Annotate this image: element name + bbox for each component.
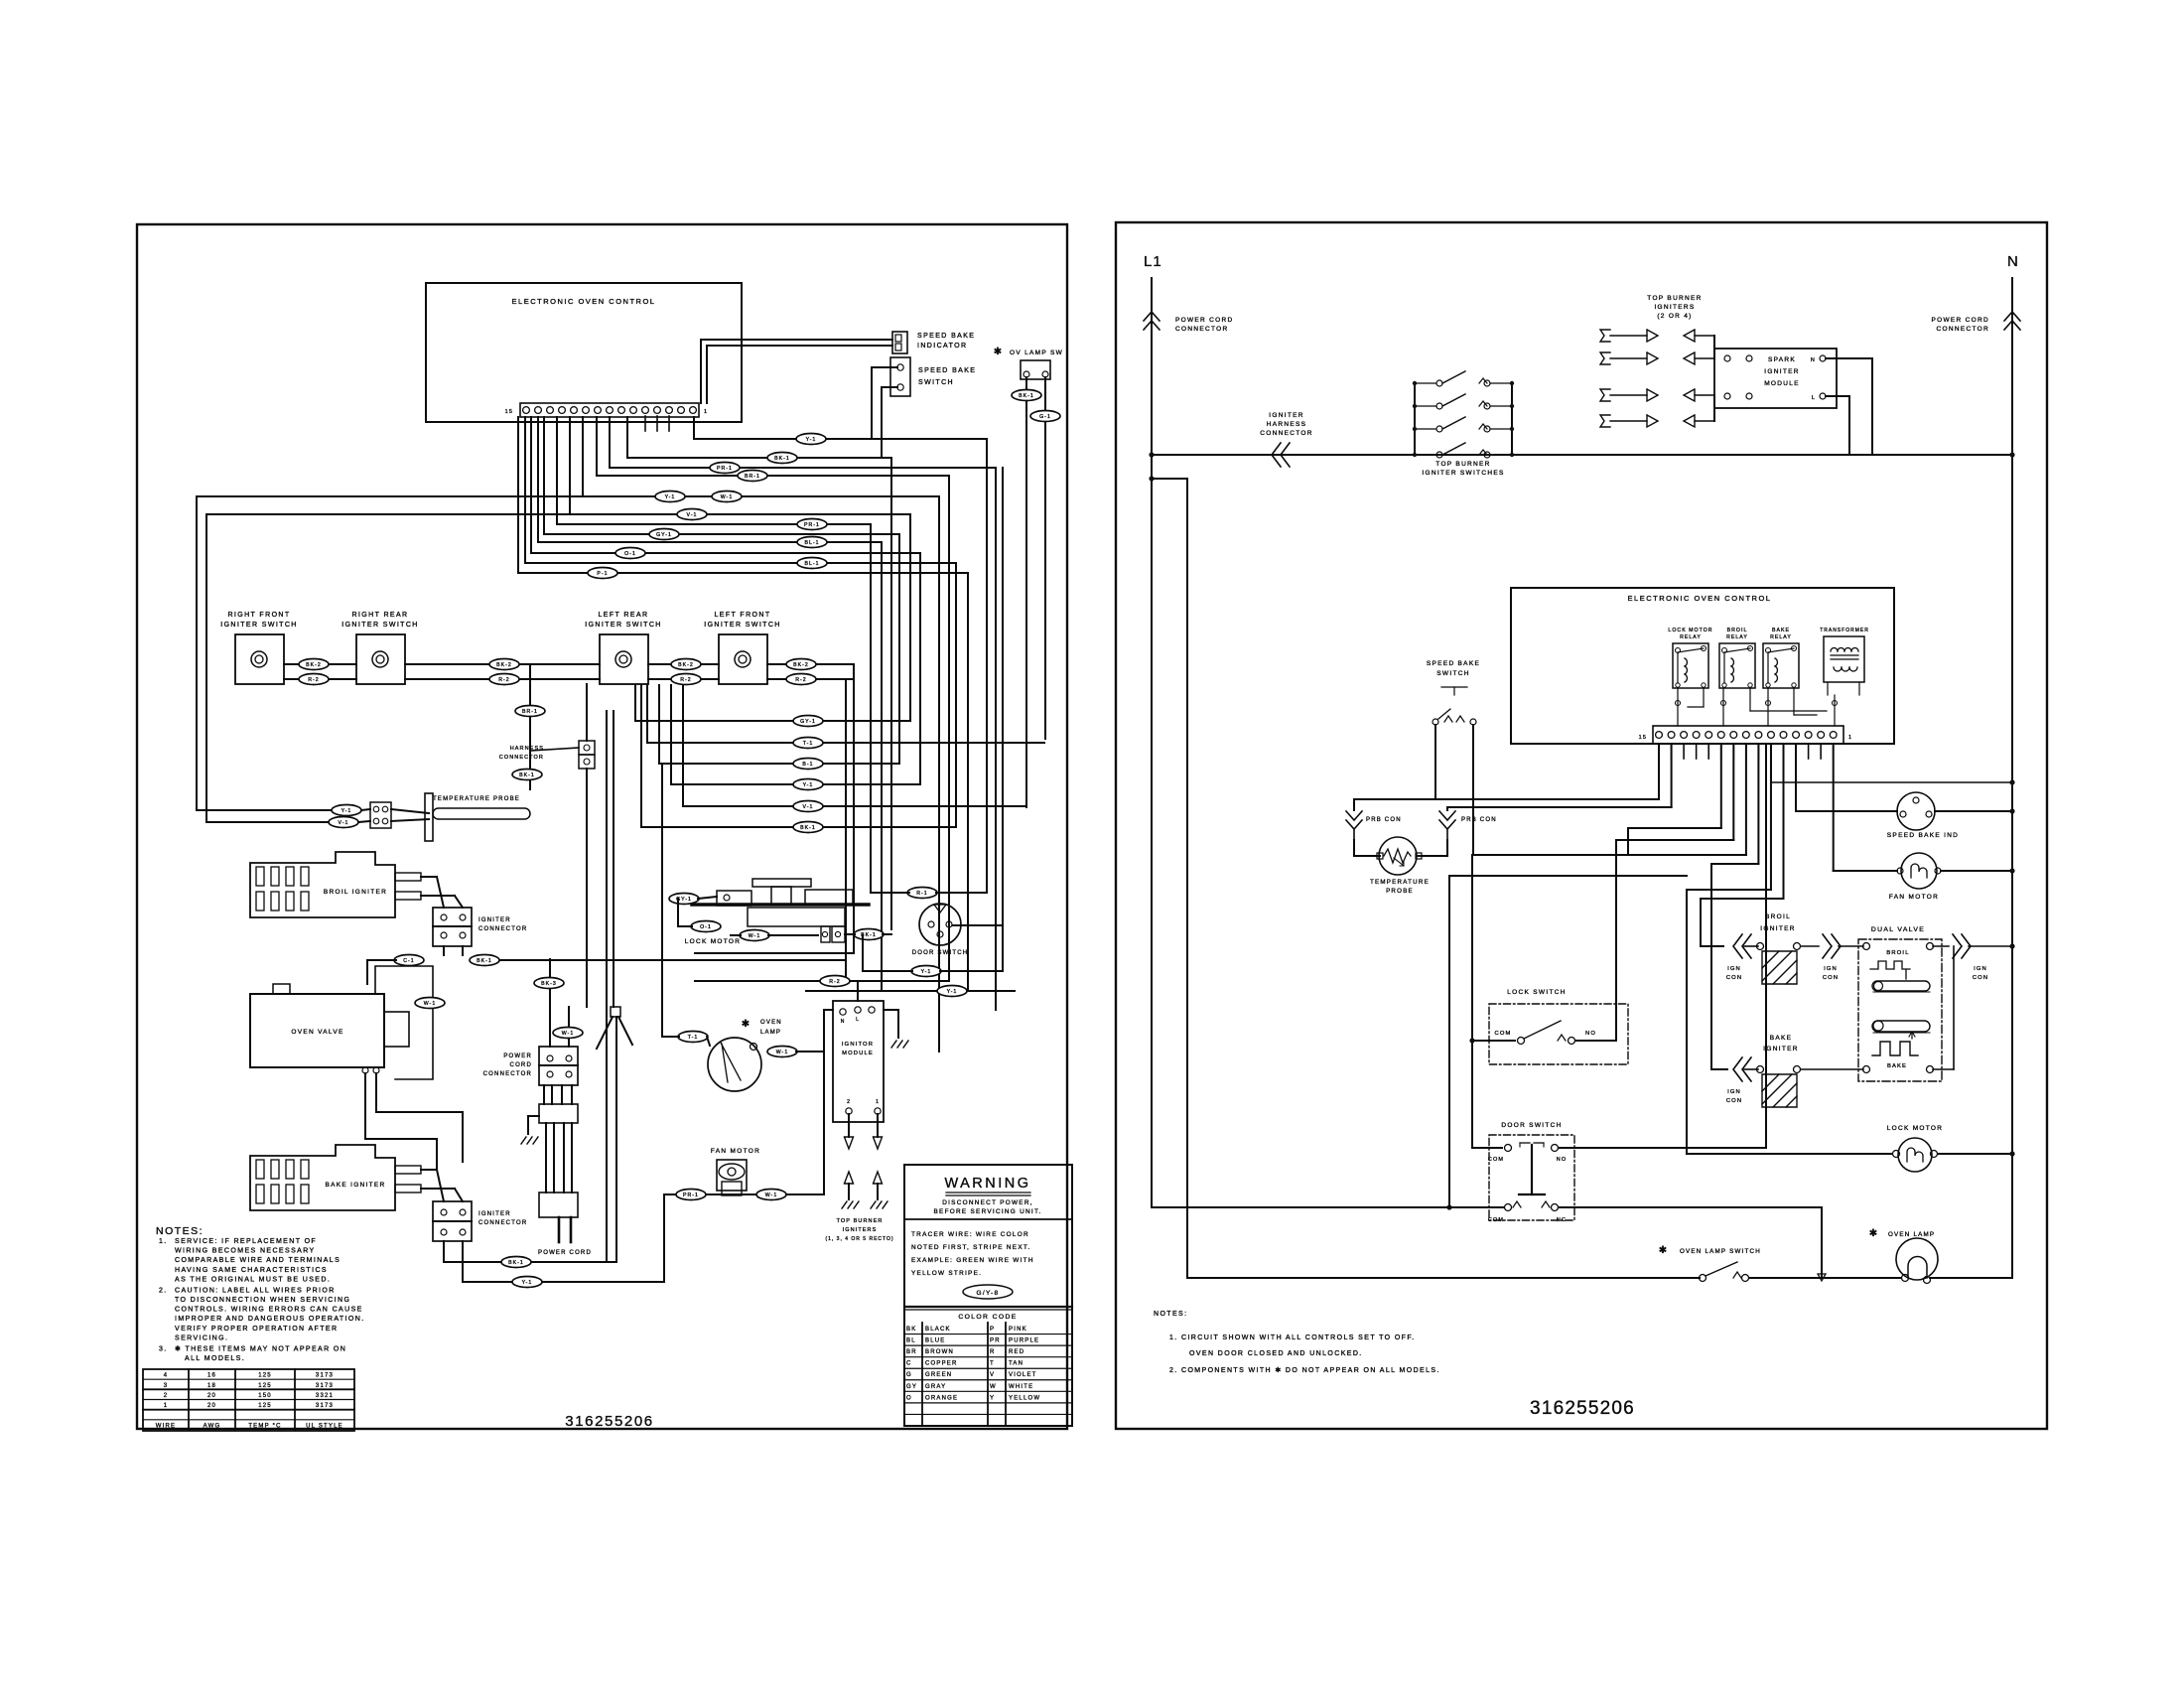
- svg-text:POWER CORD: POWER CORD: [1932, 317, 1990, 324]
- svg-text:3173: 3173: [316, 1383, 334, 1389]
- svg-text:Y-1: Y-1: [522, 1280, 533, 1286]
- svg-text:BL: BL: [906, 1338, 916, 1344]
- svg-text:CAUTION: LABEL ALL WIRES PRI: CAUTION: LABEL ALL WIRES PRIOR: [175, 1287, 336, 1294]
- svg-text:NOTES:: NOTES:: [1154, 1311, 1187, 1318]
- svg-text:GREEN: GREEN: [925, 1372, 952, 1378]
- svg-text:UL STYLE: UL STYLE: [306, 1423, 343, 1429]
- svg-text:CON: CON: [1726, 975, 1742, 981]
- svg-text:R-2: R-2: [308, 677, 319, 683]
- svg-text:BK-2: BK-2: [496, 662, 512, 668]
- svg-text:W-1: W-1: [721, 494, 734, 500]
- svg-text:RELAY: RELAY: [1726, 634, 1748, 640]
- svg-text:GY-1: GY-1: [800, 719, 816, 725]
- svg-text:OVEN: OVEN: [760, 1020, 782, 1026]
- svg-text:W-1: W-1: [776, 1050, 789, 1055]
- svg-text:T-1: T-1: [688, 1035, 699, 1041]
- svg-text:GY-1: GY-1: [656, 532, 672, 538]
- svg-text:OVEN VALVE: OVEN VALVE: [291, 1029, 343, 1036]
- svg-text:SPEED BAKE: SPEED BAKE: [918, 367, 976, 374]
- svg-text:BK-1: BK-1: [774, 456, 790, 462]
- svg-text:IGNITER: IGNITER: [478, 1211, 511, 1217]
- svg-text:CONTROLS. WIRING ERRORS CAN: CONTROLS. WIRING ERRORS CAN CAUSE: [175, 1307, 363, 1314]
- svg-text:BROIL: BROIL: [1765, 913, 1791, 920]
- svg-text:IGNITER: IGNITER: [478, 917, 511, 923]
- svg-text:C-1: C-1: [403, 958, 414, 964]
- svg-text:ALL MODELS.: ALL MODELS.: [185, 1355, 245, 1362]
- svg-text:SWITCH: SWITCH: [918, 379, 954, 386]
- svg-text:DOOR SWITCH: DOOR SWITCH: [912, 950, 969, 956]
- svg-text:V-1: V-1: [803, 804, 814, 810]
- svg-text:GY: GY: [906, 1384, 917, 1390]
- svg-text:OVEN LAMP: OVEN LAMP: [1888, 1231, 1935, 1238]
- svg-text:B-1: B-1: [802, 762, 813, 768]
- svg-text:TO DISCONNECTION WHEN SERVICIN: TO DISCONNECTION WHEN SERVICING: [175, 1297, 350, 1304]
- svg-text:BK-2: BK-2: [793, 662, 809, 668]
- svg-text:SWITCH: SWITCH: [1436, 670, 1469, 677]
- svg-text:IGNITER SWITCHES: IGNITER SWITCHES: [1422, 470, 1504, 477]
- svg-text:COM: COM: [1488, 1217, 1504, 1223]
- svg-text:CON: CON: [1726, 1098, 1742, 1104]
- svg-text:BK: BK: [906, 1327, 916, 1333]
- svg-text:125: 125: [258, 1383, 272, 1389]
- svg-text:DISCONNECT POWER,: DISCONNECT POWER,: [942, 1199, 1033, 1206]
- svg-text:CONNECTOR: CONNECTOR: [478, 926, 527, 932]
- svg-text:N: N: [1811, 357, 1816, 363]
- svg-text:W-1: W-1: [765, 1193, 778, 1198]
- svg-text:NO: NO: [1557, 1157, 1567, 1163]
- svg-text:Y-1: Y-1: [806, 437, 817, 443]
- svg-text:LOCK MOTOR: LOCK MOTOR: [1887, 1125, 1944, 1132]
- svg-text:COM: COM: [1488, 1157, 1504, 1163]
- svg-text:BROIL: BROIL: [1727, 628, 1748, 633]
- svg-text:✱: ✱: [1869, 1228, 1879, 1239]
- svg-text:Y-1: Y-1: [665, 494, 676, 500]
- svg-text:1: 1: [876, 1099, 880, 1105]
- svg-text:V-1: V-1: [687, 512, 698, 518]
- svg-text:✱: ✱: [1659, 1245, 1669, 1256]
- svg-text:TOP BURNER: TOP BURNER: [837, 1218, 884, 1224]
- svg-text:RIGHT FRONT: RIGHT FRONT: [227, 612, 290, 619]
- svg-text:BR-1: BR-1: [745, 474, 760, 480]
- svg-text:BK-1: BK-1: [477, 958, 492, 964]
- svg-text:BL-1: BL-1: [804, 540, 819, 546]
- svg-text:G/Y-8: G/Y-8: [977, 1290, 1000, 1297]
- svg-text:COLOR CODE: COLOR CODE: [958, 1314, 1017, 1321]
- svg-text:OVEN LAMP SWITCH: OVEN LAMP SWITCH: [1680, 1248, 1761, 1255]
- svg-text:G: G: [906, 1372, 912, 1378]
- svg-text:C: C: [906, 1361, 912, 1367]
- svg-text:316255206: 316255206: [565, 1413, 653, 1430]
- svg-text:Y: Y: [990, 1395, 995, 1401]
- svg-text:RELAY: RELAY: [1680, 634, 1702, 640]
- svg-text:3173: 3173: [316, 1403, 334, 1409]
- svg-text:IGNITER SWITCH: IGNITER SWITCH: [341, 622, 419, 629]
- svg-text:BAKE: BAKE: [1887, 1063, 1907, 1069]
- svg-text:YELLOW STRIPE.: YELLOW STRIPE.: [911, 1270, 982, 1277]
- svg-text:IGNITER: IGNITER: [1269, 412, 1303, 419]
- svg-text:COM: COM: [1494, 1031, 1511, 1037]
- svg-text:T-1: T-1: [803, 741, 814, 747]
- svg-text:PURPLE: PURPLE: [1009, 1338, 1039, 1344]
- svg-text:TEMP °C: TEMP °C: [248, 1423, 281, 1429]
- svg-text:IMPROPER AND DANGEROUS OPERATI: IMPROPER AND DANGEROUS OPERATION.: [175, 1316, 365, 1323]
- svg-text:✱ THESE ITEMS MAY NOT APPEAR O: ✱ THESE ITEMS MAY NOT APPEAR ON: [175, 1344, 346, 1352]
- svg-text:R-2: R-2: [795, 677, 806, 683]
- svg-text:SPEED BAKE: SPEED BAKE: [1427, 660, 1480, 667]
- svg-text:CONNECTOR: CONNECTOR: [1937, 326, 1989, 333]
- svg-text:BROWN: BROWN: [925, 1349, 954, 1355]
- svg-text:O-1: O-1: [624, 551, 636, 557]
- svg-text:MODULE: MODULE: [842, 1051, 874, 1056]
- svg-text:Y-1: Y-1: [921, 969, 932, 975]
- svg-text:18: 18: [207, 1383, 216, 1389]
- svg-text:GRAY: GRAY: [925, 1384, 946, 1390]
- svg-text:1.: 1.: [159, 1238, 168, 1245]
- svg-text:POWER CORD: POWER CORD: [538, 1250, 592, 1256]
- svg-text:WHITE: WHITE: [1009, 1384, 1033, 1390]
- svg-text:(2 OR 4): (2 OR 4): [1657, 313, 1692, 320]
- svg-text:BL-1: BL-1: [804, 561, 819, 567]
- svg-text:2: 2: [164, 1393, 169, 1399]
- svg-text:BEFORE SERVICING UNIT.: BEFORE SERVICING UNIT.: [933, 1208, 1041, 1215]
- svg-text:SERVICING.: SERVICING.: [175, 1334, 228, 1341]
- svg-text:3.: 3.: [159, 1345, 168, 1352]
- svg-text:4: 4: [164, 1373, 169, 1379]
- svg-text:IGNITER: IGNITER: [1760, 925, 1795, 932]
- svg-text:20: 20: [207, 1393, 216, 1399]
- svg-text:PR: PR: [990, 1338, 1001, 1344]
- svg-text:POWER: POWER: [503, 1053, 532, 1059]
- svg-text:IGN: IGN: [1824, 966, 1838, 972]
- svg-text:HAVING SAME CHARACTERISTICS: HAVING SAME CHARACTERISTICS: [175, 1267, 328, 1274]
- svg-text:O-1: O-1: [700, 924, 712, 930]
- svg-text:FAN MOTOR: FAN MOTOR: [1889, 894, 1939, 901]
- svg-text:BLACK: BLACK: [925, 1327, 951, 1333]
- svg-text:15: 15: [505, 409, 513, 415]
- svg-text:BR: BR: [906, 1349, 917, 1355]
- svg-text:CON: CON: [1823, 975, 1839, 981]
- svg-text:W-1: W-1: [749, 933, 761, 939]
- svg-text:COMPARABLE WIRE AND TERMINALS: COMPARABLE WIRE AND TERMINALS: [175, 1257, 341, 1264]
- svg-text:V: V: [990, 1372, 995, 1378]
- svg-text:R: R: [990, 1349, 996, 1355]
- svg-text:R-1: R-1: [916, 891, 927, 897]
- svg-text:3321: 3321: [316, 1393, 334, 1399]
- svg-text:L: L: [1812, 395, 1816, 401]
- svg-text:COPPER: COPPER: [925, 1361, 958, 1367]
- svg-text:INDICATOR: INDICATOR: [917, 343, 967, 350]
- svg-text:OV LAMP SW: OV LAMP SW: [1010, 350, 1063, 356]
- svg-text:WARNING: WARNING: [944, 1176, 1030, 1192]
- svg-text:DOOR SWITCH: DOOR SWITCH: [1501, 1122, 1562, 1129]
- svg-text:P-1: P-1: [597, 571, 608, 577]
- svg-text:BK-1: BK-1: [508, 1260, 524, 1266]
- svg-text:CONNECTOR: CONNECTOR: [1175, 326, 1228, 333]
- svg-text:N: N: [2007, 253, 2018, 270]
- svg-text:IGNITER SWITCH: IGNITER SWITCH: [220, 622, 298, 629]
- svg-text:VIOLET: VIOLET: [1009, 1372, 1037, 1378]
- svg-text:R-2: R-2: [829, 979, 840, 985]
- svg-text:W: W: [990, 1384, 997, 1390]
- svg-text:✱: ✱: [742, 1019, 751, 1030]
- svg-text:BROIL: BROIL: [1886, 950, 1909, 956]
- svg-text:ELECTRONIC OVEN CONTROL: ELECTRONIC OVEN CONTROL: [512, 297, 656, 306]
- svg-text:IGNITERS: IGNITERS: [1654, 304, 1695, 311]
- svg-text:CONNECTOR: CONNECTOR: [499, 755, 544, 761]
- svg-text:AS THE ORIGINAL MUST BE USED.: AS THE ORIGINAL MUST BE USED.: [175, 1276, 331, 1283]
- svg-text:15: 15: [1639, 735, 1647, 741]
- svg-text:R-2: R-2: [498, 677, 509, 683]
- svg-text:PRB CON: PRB CON: [1461, 817, 1497, 823]
- svg-text:(1, 3, 4 OR 5 RECTO): (1, 3, 4 OR 5 RECTO): [825, 1236, 893, 1242]
- svg-text:RELAY: RELAY: [1770, 634, 1792, 640]
- svg-text:G-1: G-1: [1039, 414, 1051, 420]
- svg-text:BK-3: BK-3: [541, 981, 557, 987]
- svg-text:TOP BURNER: TOP BURNER: [1647, 295, 1702, 302]
- svg-text:ELECTRONIC OVEN CONTROL: ELECTRONIC OVEN CONTROL: [1628, 594, 1772, 603]
- svg-text:3: 3: [164, 1383, 169, 1389]
- svg-text:2: 2: [847, 1099, 851, 1105]
- svg-text:N: N: [841, 1019, 846, 1025]
- svg-text:PROBE: PROBE: [1386, 888, 1414, 895]
- svg-text:125: 125: [258, 1403, 272, 1409]
- svg-text:3173: 3173: [316, 1373, 334, 1379]
- svg-text:TEMPERATURE: TEMPERATURE: [1370, 879, 1430, 886]
- svg-text:RIGHT REAR: RIGHT REAR: [351, 612, 408, 619]
- svg-text:BAKE IGNITER: BAKE IGNITER: [325, 1182, 385, 1189]
- svg-text:O: O: [906, 1395, 912, 1401]
- svg-text:BR-1: BR-1: [522, 709, 538, 715]
- svg-text:IGN: IGN: [1727, 1089, 1741, 1095]
- svg-text:YELLOW: YELLOW: [1009, 1395, 1040, 1401]
- svg-text:LOCK MOTOR: LOCK MOTOR: [685, 938, 742, 945]
- svg-text:TRANSFORMER: TRANSFORMER: [1820, 628, 1869, 633]
- svg-text:NO: NO: [1585, 1031, 1596, 1037]
- svg-text:DUAL VALVE: DUAL VALVE: [1871, 926, 1925, 933]
- svg-text:HARNESS: HARNESS: [1267, 421, 1307, 428]
- svg-text:IGNITER SWITCH: IGNITER SWITCH: [704, 622, 781, 629]
- svg-text:PRB CON: PRB CON: [1366, 817, 1402, 823]
- svg-text:LOCK SWITCH: LOCK SWITCH: [1507, 989, 1566, 996]
- svg-text:IGNITOR: IGNITOR: [842, 1042, 874, 1048]
- svg-text:Y-1: Y-1: [803, 782, 814, 788]
- svg-text:R-2: R-2: [680, 677, 691, 683]
- svg-text:V-1: V-1: [339, 820, 349, 826]
- svg-text:316255206: 316255206: [1530, 1398, 1635, 1419]
- svg-text:2. COMPONENTS WITH ✱ DO NOT: 2. COMPONENTS WITH ✱ DO NOT APPEAR ON AL…: [1169, 1366, 1440, 1374]
- svg-text:BK-2: BK-2: [306, 662, 322, 668]
- svg-text:CON: CON: [1973, 975, 1988, 981]
- svg-text:PR-1: PR-1: [804, 522, 820, 528]
- svg-text:VERIFY PROPER OPERATION AFTER: VERIFY PROPER OPERATION AFTER: [175, 1326, 338, 1333]
- svg-text:LEFT REAR: LEFT REAR: [599, 612, 649, 619]
- svg-text:NOTES:: NOTES:: [156, 1225, 204, 1237]
- svg-text:AWG: AWG: [204, 1423, 221, 1429]
- svg-text:16: 16: [207, 1373, 216, 1379]
- svg-text:Y-1: Y-1: [947, 989, 958, 995]
- svg-text:150: 150: [258, 1393, 272, 1399]
- svg-text:CORD: CORD: [510, 1062, 532, 1068]
- svg-text:1: 1: [1848, 735, 1852, 741]
- svg-text:1: 1: [704, 409, 708, 415]
- svg-text:IGN: IGN: [1974, 966, 1987, 972]
- svg-text:NOTED FIRST, STRIPE NEXT.: NOTED FIRST, STRIPE NEXT.: [911, 1244, 1030, 1251]
- svg-text:BK-2: BK-2: [678, 662, 694, 668]
- svg-text:BLUE: BLUE: [925, 1338, 945, 1344]
- svg-text:L1: L1: [1144, 253, 1162, 270]
- svg-text:IGNITERS: IGNITERS: [843, 1227, 878, 1233]
- svg-text:EXAMPLE: GREEN WIRE WITH: EXAMPLE: GREEN WIRE WITH: [911, 1257, 1034, 1264]
- svg-text:SPEED BAKE IND: SPEED BAKE IND: [1887, 832, 1959, 839]
- svg-text:TEMPERATURE PROBE: TEMPERATURE PROBE: [433, 796, 520, 802]
- svg-text:CONNECTOR: CONNECTOR: [483, 1071, 532, 1077]
- svg-text:W-1: W-1: [562, 1031, 575, 1037]
- svg-text:IGNITER SWITCH: IGNITER SWITCH: [585, 622, 662, 629]
- svg-text:BK-1: BK-1: [1019, 393, 1034, 399]
- svg-text:TOP BURNER: TOP BURNER: [1435, 461, 1490, 468]
- svg-text:P: P: [990, 1327, 995, 1333]
- svg-text:BAKE: BAKE: [1770, 1035, 1793, 1042]
- svg-text:125: 125: [258, 1373, 272, 1379]
- svg-text:Y-1: Y-1: [341, 808, 352, 814]
- svg-text:SPARK: SPARK: [1768, 356, 1796, 363]
- svg-text:PINK: PINK: [1009, 1327, 1027, 1333]
- svg-text:IGNITER: IGNITER: [1764, 368, 1799, 375]
- svg-text:20: 20: [207, 1403, 216, 1409]
- svg-text:TAN: TAN: [1009, 1361, 1024, 1367]
- svg-text:W-1: W-1: [424, 1001, 437, 1007]
- svg-text:SERVICE: IF REPLACEMENT OF: SERVICE: IF REPLACEMENT OF: [175, 1238, 317, 1245]
- svg-text:LEFT FRONT: LEFT FRONT: [714, 612, 770, 619]
- svg-text:POWER CORD: POWER CORD: [1175, 317, 1234, 324]
- svg-text:ORANGE: ORANGE: [925, 1395, 958, 1401]
- svg-text:T: T: [990, 1361, 995, 1367]
- svg-text:✱: ✱: [994, 347, 1004, 357]
- svg-text:LAMP: LAMP: [760, 1030, 781, 1036]
- svg-text:L: L: [856, 1017, 860, 1023]
- svg-text:OVEN DOOR CLOSED AND UNLOCKED.: OVEN DOOR CLOSED AND UNLOCKED.: [1189, 1350, 1363, 1357]
- svg-text:MODULE: MODULE: [1764, 380, 1800, 387]
- svg-text:PR-1: PR-1: [683, 1193, 699, 1198]
- svg-text:RED: RED: [1009, 1349, 1024, 1355]
- svg-text:CONNECTOR: CONNECTOR: [478, 1220, 527, 1226]
- svg-text:SPEED BAKE: SPEED BAKE: [917, 333, 975, 340]
- svg-text:BROIL IGNITER: BROIL IGNITER: [324, 889, 387, 896]
- svg-text:TRACER WIRE: WIRE COLOR: TRACER WIRE: WIRE COLOR: [911, 1231, 1029, 1238]
- svg-text:WIRE: WIRE: [156, 1423, 176, 1429]
- svg-text:BAKE: BAKE: [1772, 628, 1790, 633]
- svg-text:NC: NC: [1557, 1217, 1567, 1223]
- svg-text:1: 1: [164, 1403, 169, 1409]
- svg-text:WIRING BECOMES NECESSARY: WIRING BECOMES NECESSARY: [175, 1248, 316, 1255]
- svg-text:BK-1: BK-1: [800, 825, 816, 831]
- svg-text:CONNECTOR: CONNECTOR: [1260, 430, 1312, 437]
- svg-text:PR-1: PR-1: [717, 466, 733, 472]
- svg-text:HARNESS: HARNESS: [510, 746, 544, 752]
- svg-text:LOCK MOTOR: LOCK MOTOR: [1668, 628, 1712, 633]
- svg-text:BK-1: BK-1: [519, 772, 535, 778]
- svg-text:IGN: IGN: [1727, 966, 1741, 972]
- svg-text:FAN MOTOR: FAN MOTOR: [711, 1148, 760, 1155]
- svg-text:2.: 2.: [159, 1287, 168, 1294]
- svg-text:IGNITER: IGNITER: [1763, 1046, 1798, 1052]
- svg-text:1. CIRCUIT SHOWN WITH ALL CON: 1. CIRCUIT SHOWN WITH ALL CONTROLS SET T…: [1169, 1334, 1416, 1341]
